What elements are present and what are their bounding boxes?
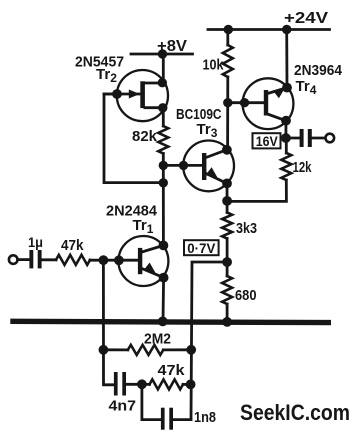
transistor Tr1 2N2484 NPN	[118, 236, 168, 286]
wire output node to coupling capacitor	[286, 137, 300, 140]
wire 82k to Tr1 collector	[162, 154, 165, 246]
svg-text:+8V: +8V	[157, 38, 187, 55]
wire 47k to Tr1 base	[90, 259, 138, 262]
terminal input	[9, 255, 18, 264]
node input feedback junction	[99, 255, 109, 265]
capacitor output coupling	[300, 129, 312, 147]
node +8V rail junction	[158, 49, 167, 58]
wire Tr3 base from 82k junction	[163, 164, 202, 167]
resistor 3k3	[222, 213, 232, 239]
node 4n7 / 47k / 1n8 junction	[137, 379, 147, 389]
node Tr3 base at circle	[179, 161, 188, 170]
node Tr1 emitter	[159, 273, 169, 283]
svg-text:4n7: 4n7	[109, 398, 137, 415]
wire output node to 12k	[285, 138, 288, 153]
wire capacitor to output terminal	[312, 137, 325, 140]
svg-text:+24V: +24V	[284, 10, 328, 27]
svg-text:2M2: 2M2	[144, 332, 171, 348]
svg-text:Tr4: Tr4	[296, 78, 317, 97]
wire 12k return to Tr3 emitter branch	[227, 180, 286, 201]
wire Tr2 source to 82k	[162, 108, 165, 126]
svg-text:82k: 82k	[132, 129, 158, 145]
resistor 47k feedback	[150, 379, 184, 389]
transistor Tr2 2N5457 JFET	[104, 70, 168, 121]
resistor 680	[222, 276, 232, 304]
resistor 2M2	[128, 345, 164, 355]
resistor 12k	[281, 153, 291, 180]
resistor 82k	[158, 126, 168, 154]
svg-text:Tr3: Tr3	[197, 121, 218, 140]
capacitor 1u	[29, 250, 41, 268]
wire input terminal to 1u capacitor	[18, 258, 30, 261]
svg-text:3k3: 3k3	[236, 221, 257, 237]
node Tr1 emitter at ground rail	[158, 317, 168, 327]
wire input node down to feedback network	[103, 260, 114, 385]
wire Tr1 emitter to ground rail	[162, 278, 165, 322]
resistor 10k	[223, 45, 233, 77]
node 2M2 right junction	[186, 345, 196, 355]
svg-text:Tr1: Tr1	[133, 217, 154, 236]
svg-text:2N3964: 2N3964	[294, 63, 342, 79]
wire +8V supply rail	[131, 53, 193, 56]
node Tr3 emitter	[222, 179, 232, 189]
terminal output	[326, 134, 335, 143]
svg-text:10k: 10k	[203, 58, 225, 74]
node Tr3 collector	[222, 145, 232, 155]
node Tr1 collector	[159, 241, 169, 251]
wire 10k to Tr3 collector	[226, 77, 229, 150]
node 47k/1n8 right junction	[186, 380, 196, 390]
wire 1n8 to right junction	[173, 418, 191, 421]
node Tr2 drain	[158, 78, 167, 87]
node 2M2 left junction	[99, 345, 109, 355]
svg-text:1μ: 1μ	[28, 234, 43, 250]
svg-text:1n8: 1n8	[194, 410, 216, 426]
svg-text:680: 680	[235, 288, 257, 304]
node 82k / Tr3 base junction	[159, 161, 168, 170]
svg-text:16V: 16V	[256, 133, 279, 149]
svg-text:12k: 12k	[293, 160, 313, 176]
capacitor 1n8	[161, 408, 173, 430]
wire 47k to right junction	[183, 383, 191, 386]
node Tr2 gate	[112, 89, 122, 99]
wire 1n8 branch from middle junction	[142, 384, 161, 419]
svg-text:SeekIC.com: SeekIC.com	[240, 400, 350, 425]
wire 1u to 47k	[42, 258, 56, 261]
wire Tr4 collector to output node	[284, 121, 287, 138]
wire +24V to Tr4 emitter	[285, 30, 288, 88]
label 0.7V boxed	[184, 240, 219, 256]
capacitor 4n7	[114, 372, 126, 396]
wire 680 to ground rail	[226, 304, 229, 322]
transistor Tr4 2N3964 PNP	[243, 78, 294, 129]
transistor Tr3 BC109C NPN	[183, 141, 234, 192]
node +24V / Tr4 emitter junction	[282, 25, 291, 34]
node Tr4 base junction on rail	[223, 98, 232, 107]
resistor 47k input	[56, 255, 90, 265]
node Tr1 base at circle	[114, 255, 124, 265]
wire 2M2 right lead	[163, 348, 191, 351]
node output junction	[281, 133, 291, 143]
node +24V / 10k junction	[224, 25, 233, 34]
wire +24V supply rail	[208, 28, 330, 31]
node Tr4 base at circle	[240, 98, 249, 107]
node Tr2 source	[158, 103, 167, 112]
svg-text:47k: 47k	[61, 238, 84, 254]
wire Tr3 emitter to 3k3	[226, 183, 229, 212]
node 0.7V junction	[222, 257, 232, 267]
wire +8V rail to Tr2 drain	[162, 54, 165, 83]
node Tr4 collector	[281, 116, 291, 126]
wire Tr2 gate feedback loop	[104, 94, 163, 183]
wire 4n7 to middle junction	[126, 383, 150, 386]
node 12k return junction	[222, 196, 232, 206]
node 680 at ground rail	[222, 317, 232, 327]
wire +24V rail to 10k	[226, 30, 229, 46]
ground rail	[13, 321, 328, 322]
label 16V boxed	[253, 133, 281, 149]
wire 2M2 left lead	[103, 348, 127, 351]
wire 3k3 to 680	[226, 239, 229, 277]
node gate feedback junction	[159, 178, 168, 187]
svg-text:0·7V: 0·7V	[187, 240, 216, 256]
wire 0.7V node down to feedback network	[191, 262, 227, 420]
wire Tr4 base	[228, 101, 264, 104]
node Tr4 emitter	[282, 83, 292, 93]
svg-text:2N2484: 2N2484	[106, 204, 157, 220]
svg-text:47k: 47k	[158, 363, 186, 379]
